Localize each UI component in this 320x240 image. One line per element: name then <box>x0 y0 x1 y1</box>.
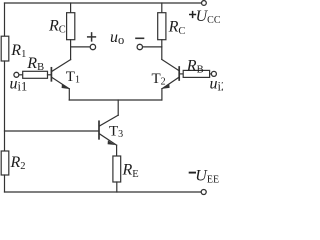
resistor R2 <box>1 151 9 175</box>
svg-text:T3: T3 <box>109 124 123 141</box>
resistor RC1 <box>67 13 75 40</box>
wire RE bottom lead <box>116 182 118 192</box>
terminal ui2 input <box>211 71 216 76</box>
wire T1 emitter drop <box>68 89 70 100</box>
label ui2 <box>210 76 228 94</box>
wire RC2 top lead <box>161 3 163 13</box>
resistor RB2 <box>183 70 209 77</box>
label RE <box>122 162 139 180</box>
transistor T2 <box>162 59 179 88</box>
svg-text:RB: RB <box>26 55 44 73</box>
wire T2 base lead <box>180 73 184 75</box>
wire output minus branch <box>143 46 162 48</box>
svg-text:T2: T2 <box>152 71 166 88</box>
wire ui1 lead <box>19 74 23 76</box>
svg-text:R2: R2 <box>10 154 26 172</box>
resistor RB1 <box>23 71 48 78</box>
svg-text:UEE: UEE <box>195 168 219 186</box>
wire left branch middle (R1 to R2 through node) <box>4 61 6 151</box>
transistor T1 <box>51 60 70 89</box>
label -UEE <box>189 168 219 186</box>
wire left branch upper (rail to R1) <box>4 3 6 36</box>
svg-text:R1: R1 <box>10 42 26 60</box>
label +UCC <box>189 8 221 26</box>
resistor RE <box>113 156 121 182</box>
label T2 <box>152 71 166 88</box>
resistor R1 <box>1 36 9 61</box>
svg-text:ui2: ui2 <box>210 76 224 94</box>
wire T3 base (from R1-R2 node) <box>5 130 99 132</box>
label RB1 <box>26 55 44 73</box>
wire left branch lower (R2 to bottom rail) <box>4 175 6 192</box>
wire output plus branch <box>71 46 91 48</box>
label ui1 <box>10 76 28 94</box>
svg-text:RB: RB <box>186 57 204 75</box>
label R2 <box>10 154 26 172</box>
svg-text:RC: RC <box>168 19 186 37</box>
label RC2 <box>168 19 186 37</box>
terminal output plus <box>90 44 95 49</box>
output minus sign <box>136 37 144 39</box>
wire emitter bus <box>69 99 162 101</box>
svg-text:T1: T1 <box>66 69 80 86</box>
svg-text:RE: RE <box>122 162 139 180</box>
label R1 <box>10 42 26 60</box>
wire T3 collector drop <box>117 100 119 115</box>
resistor RC2 <box>158 13 166 40</box>
wire RC1 top lead <box>70 3 72 13</box>
label RC1 <box>48 18 66 36</box>
terminal output minus <box>137 44 142 49</box>
wire ui2 lead <box>210 73 212 75</box>
terminal -UEE <box>201 190 206 195</box>
wire T2 emitter drop <box>161 89 163 100</box>
svg-text:RC: RC <box>48 18 66 36</box>
wire bottom supply rail <box>5 191 202 193</box>
wire RC1 bottom lead / T1 collector riser <box>70 40 72 60</box>
svg-text:uo: uo <box>110 29 124 47</box>
wire top supply rail <box>5 2 202 4</box>
label uo <box>110 29 124 47</box>
label T3 <box>109 124 123 141</box>
output plus sign <box>88 33 96 41</box>
wire T3 emitter lead <box>116 145 118 156</box>
transistor T3 <box>99 115 118 145</box>
label T1 <box>66 69 80 86</box>
wire T1 base lead <box>48 74 51 76</box>
wire RC2 bottom lead / T2 collector riser <box>161 40 163 60</box>
svg-text:UCC: UCC <box>196 8 221 26</box>
terminal +UCC <box>202 1 207 6</box>
label RB2 <box>186 57 204 75</box>
terminal ui1 input <box>14 72 19 77</box>
